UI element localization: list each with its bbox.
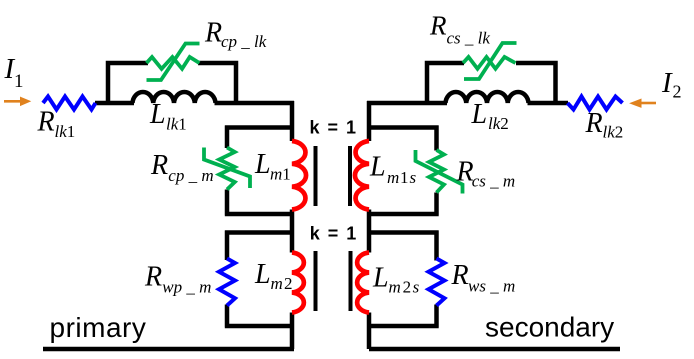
svg-text:R: R: [585, 108, 603, 139]
svg-text:2: 2: [673, 82, 682, 102]
svg-text:R: R: [150, 150, 168, 181]
svg-text:L: L: [372, 263, 389, 294]
svg-text:R: R: [37, 107, 55, 138]
svg-text:m1s: m1s: [387, 168, 416, 187]
svg-text:lk1: lk1: [166, 115, 187, 134]
svg-text:1: 1: [14, 71, 24, 92]
svg-text:m2s: m2s: [389, 278, 420, 297]
svg-text:R: R: [204, 18, 222, 49]
svg-text:I: I: [661, 67, 673, 99]
svg-text:secondary: secondary: [485, 312, 614, 343]
svg-text:cp _ lk: cp _ lk: [221, 32, 267, 51]
svg-text:primary: primary: [50, 312, 147, 343]
svg-text:L: L: [254, 149, 271, 180]
svg-text:L: L: [254, 259, 271, 290]
svg-text:cp _ m: cp _ m: [168, 166, 213, 185]
svg-text:cs _ lk: cs _ lk: [447, 29, 491, 48]
svg-text:R: R: [144, 261, 162, 292]
svg-text:k = 1: k = 1: [309, 118, 357, 138]
svg-text:wp _ m: wp _ m: [162, 278, 211, 297]
svg-text:lk2: lk2: [488, 114, 509, 133]
svg-text:lk1: lk1: [55, 122, 76, 141]
svg-text:m1: m1: [270, 165, 291, 184]
svg-text:R: R: [451, 260, 469, 291]
svg-text:lk2: lk2: [603, 123, 624, 142]
svg-text:cs _ m: cs _ m: [472, 172, 515, 191]
svg-text:L: L: [471, 99, 488, 130]
svg-text:R: R: [429, 11, 447, 41]
svg-text:L: L: [369, 152, 386, 183]
svg-text:L: L: [149, 99, 166, 130]
svg-text:m2: m2: [271, 274, 293, 293]
svg-text:ws _ m: ws _ m: [468, 277, 515, 296]
svg-text:k = 1: k = 1: [310, 224, 358, 244]
